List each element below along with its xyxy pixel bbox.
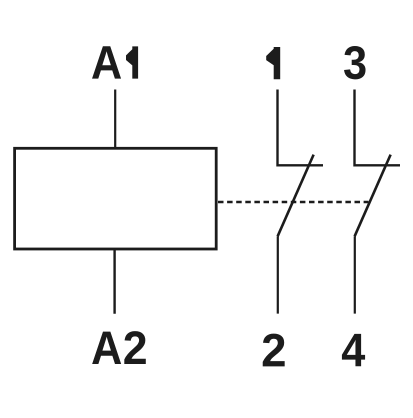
label A1 (digit 1) <box>126 46 138 78</box>
terminal label 4 <box>342 334 365 366</box>
terminal label 1 <box>266 47 280 79</box>
label A2 (digit 2) <box>124 331 145 364</box>
contact 1-2 moving contact <box>278 155 314 237</box>
label A1 (letter A) <box>92 46 121 78</box>
wire A1 to coil <box>114 90 116 150</box>
terminal label 2 <box>263 334 285 367</box>
contact 3-4 moving contact <box>355 155 391 237</box>
contact 3-4 top wire and fixed contact <box>355 90 401 166</box>
mechanical linkage (dashed) <box>218 201 368 203</box>
wire coil to A2 <box>113 248 115 314</box>
label A2 (letter A) <box>92 332 121 364</box>
contact 3-4 bottom wire <box>354 236 356 313</box>
terminal label 3 <box>344 46 365 79</box>
contact 1-2 bottom wire <box>277 236 279 313</box>
coil K1 <box>15 148 217 249</box>
contact 1-2 top wire and fixed contact <box>278 90 324 166</box>
